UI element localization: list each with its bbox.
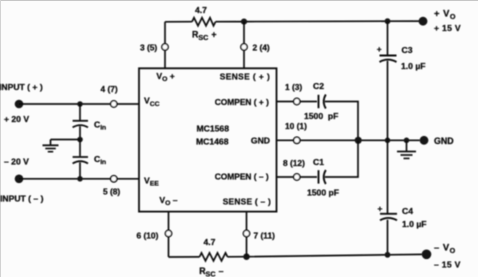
node junction Cin bottom branch [77,176,83,182]
svg-text:Cin: Cin [94,119,106,131]
wire pin 1 (3) stub [277,101,294,103]
svg-text:8 (12): 8 (12) [283,158,305,168]
svg-text:C4: C4 [402,206,413,216]
svg-text:+: + [377,44,382,54]
svg-text:4.7: 4.7 [195,5,207,15]
wire Cin2 bottom lead [79,162,81,178]
svg-text:+ 20 V: + 20 V [4,114,29,124]
wire pin 6 to bottom rail [168,237,170,257]
wire pin 2 (4) vertical [243,22,245,44]
svg-text:5 (8): 5 (8) [103,187,120,197]
node junction top at pin2 [241,19,247,25]
wire C1 to gnd net [325,140,358,177]
svg-text:MC1468: MC1468 [196,137,229,147]
svg-text:4.7: 4.7 [204,237,216,247]
op-amp regulator U1 MC1568/MC1468 box [139,68,277,211]
resistor RSC- 4.7 zigzag [200,253,228,261]
node junction Cin top branch [77,101,83,107]
wire pin 1 to C2 [300,101,317,103]
svg-text:1 (3): 1 (3) [285,82,302,92]
svg-text:C2: C2 [313,81,324,91]
svg-text:SENSE ( – ): SENSE ( – ) [223,197,271,207]
wire pin 8 to C1 [300,176,317,178]
svg-text:C3: C3 [402,45,413,55]
svg-text:7 (11): 7 (11) [254,231,276,241]
pin 1 (3) circle [294,98,300,104]
svg-text:SENSE ( + ): SENSE ( + ) [220,71,270,81]
svg-text:COMPEN ( – ): COMPEN ( – ) [215,172,269,182]
svg-text:1500 pF: 1500 pF [307,188,339,198]
svg-text:VO +: VO + [156,71,174,83]
wire pin 4 to box [117,103,139,105]
svg-text:C1: C1 [313,157,324,167]
svg-text:1.0 µF: 1.0 µF [401,61,426,71]
capacitor C4 1.0uF [380,213,397,215]
ground symbol left [50,140,52,145]
wire Cin1 bottom lead [79,126,81,139]
resistor RSC+ 4.7 zigzag [192,18,216,26]
svg-text:10 (1): 10 (1) [285,121,307,131]
wire C3 top lead [387,21,389,55]
svg-text:6 (10): 6 (10) [137,230,159,240]
svg-text:RSC –: RSC – [199,266,224,277]
wire Cin1 top lead [79,104,81,120]
svg-text:– 15 V: – 15 V [434,260,461,270]
node junction bottom at C4 [385,252,391,258]
capacitor Cin (lower) [73,156,88,158]
wire C3 bottom lead [387,61,389,141]
svg-text:+ VO: + VO [434,8,456,21]
wire pin 3 to box [164,50,166,68]
pin 5 (8) circle [111,176,117,182]
pin 6 (10) circle [165,230,171,236]
terminal +VO [419,17,428,26]
svg-text:+ 15 V: + 15 V [434,23,461,33]
svg-text:GND: GND [251,136,270,146]
svg-text:3 (5): 3 (5) [140,42,157,52]
wire top rail +VO [165,21,192,23]
wire pin 7 to bottom rail [246,237,248,257]
svg-text:VO –: VO – [159,195,177,207]
pin 8 (12) circle [294,174,300,180]
wire INPUT+ to pin 4 [19,103,111,105]
wire GND rail [300,139,420,141]
pin 2 (4) circle [241,44,247,50]
wire bottom rail left [169,256,200,258]
wire pin 8 (12) stub [277,176,294,178]
svg-text:1500 pF: 1500 pF [304,111,338,121]
svg-text:COMPEN ( + ): COMPEN ( + ) [215,97,269,107]
capacitor C3 1.0uF [380,55,397,57]
wire bottom rail right [228,254,422,256]
capacitor Cin (upper) [73,120,88,122]
terminal INPUT (+) [15,100,24,109]
wire C2 to gnd net [325,102,358,141]
svg-text:Cin: Cin [94,154,106,166]
svg-text:1.0 µF: 1.0 µF [402,219,427,229]
pin 7 (11) circle [243,230,249,236]
capacitor C2 1500pF [318,95,320,108]
capacitor C1 1500pF [318,170,320,183]
wire pin 3 (5) vertical [164,22,166,44]
svg-text:VCC: VCC [144,96,160,108]
svg-text:INPUT ( – ): INPUT ( – ) [0,193,44,203]
node junction between Cin caps [77,137,83,143]
scan border left [0,0,2,277]
svg-text:– VO: – VO [434,242,456,255]
svg-text:MC1568: MC1568 [197,124,230,134]
svg-text:4 (7): 4 (7) [101,84,118,94]
wire pin 2 to box [243,50,245,68]
svg-text:RSC +: RSC + [192,29,217,42]
svg-text:VEE: VEE [144,175,159,187]
node junction top at C3 [385,18,391,24]
wire Cin2 top lead [79,140,81,157]
wire pin 5 to box [117,178,139,180]
svg-text:2 (4): 2 (4) [253,42,270,52]
wire pin 6 (10) from box [168,212,170,231]
terminal GND [420,136,429,145]
wire pin 7 (11) from box [246,212,248,231]
svg-text:+: + [378,203,383,213]
wire pin 10 (1) stub [277,139,294,141]
node junction ground symbol [404,138,410,144]
wire C4 bottom lead [387,220,389,255]
wire INPUT- to pin 5 [19,178,111,180]
terminal INPUT (-) [15,175,24,184]
ground symbol right [406,140,408,151]
pin 10 (1) circle [294,137,300,143]
wire C4 top lead [387,140,389,213]
pin 3 (5) circle [162,44,168,50]
scan border top [0,0,478,2]
node junction C1C2 to gnd [355,137,362,144]
wire top rail right [216,20,424,23]
pin 4 (7) circle [111,101,117,107]
svg-text:GND: GND [434,136,454,146]
svg-text:INPUT ( + ): INPUT ( + ) [0,82,43,92]
wire to ground symbol [51,139,81,141]
node junction bottom at pin7 [243,253,250,260]
svg-text:– 20 V: – 20 V [4,157,29,167]
node junction C3C4 on gnd rail [385,138,391,144]
terminal -VO [422,250,432,260]
